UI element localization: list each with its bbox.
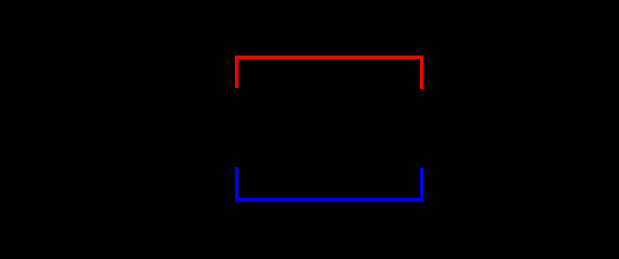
- wire: red positive supply rail, top run: [235, 56, 423, 59]
- wire: blue return rail, left riser: [235, 167, 238, 202]
- wire: red positive supply rail, right riser: [420, 56, 423, 89]
- lamp L1 (black, right branch): [402, 89, 442, 168]
- wire: blue return rail, bottom run: [235, 198, 423, 201]
- wire: blue return rail, right riser: [420, 168, 423, 201]
- wire: red positive supply rail, left riser: [235, 56, 238, 88]
- battery B1 (black, left branch): [220, 88, 254, 167]
